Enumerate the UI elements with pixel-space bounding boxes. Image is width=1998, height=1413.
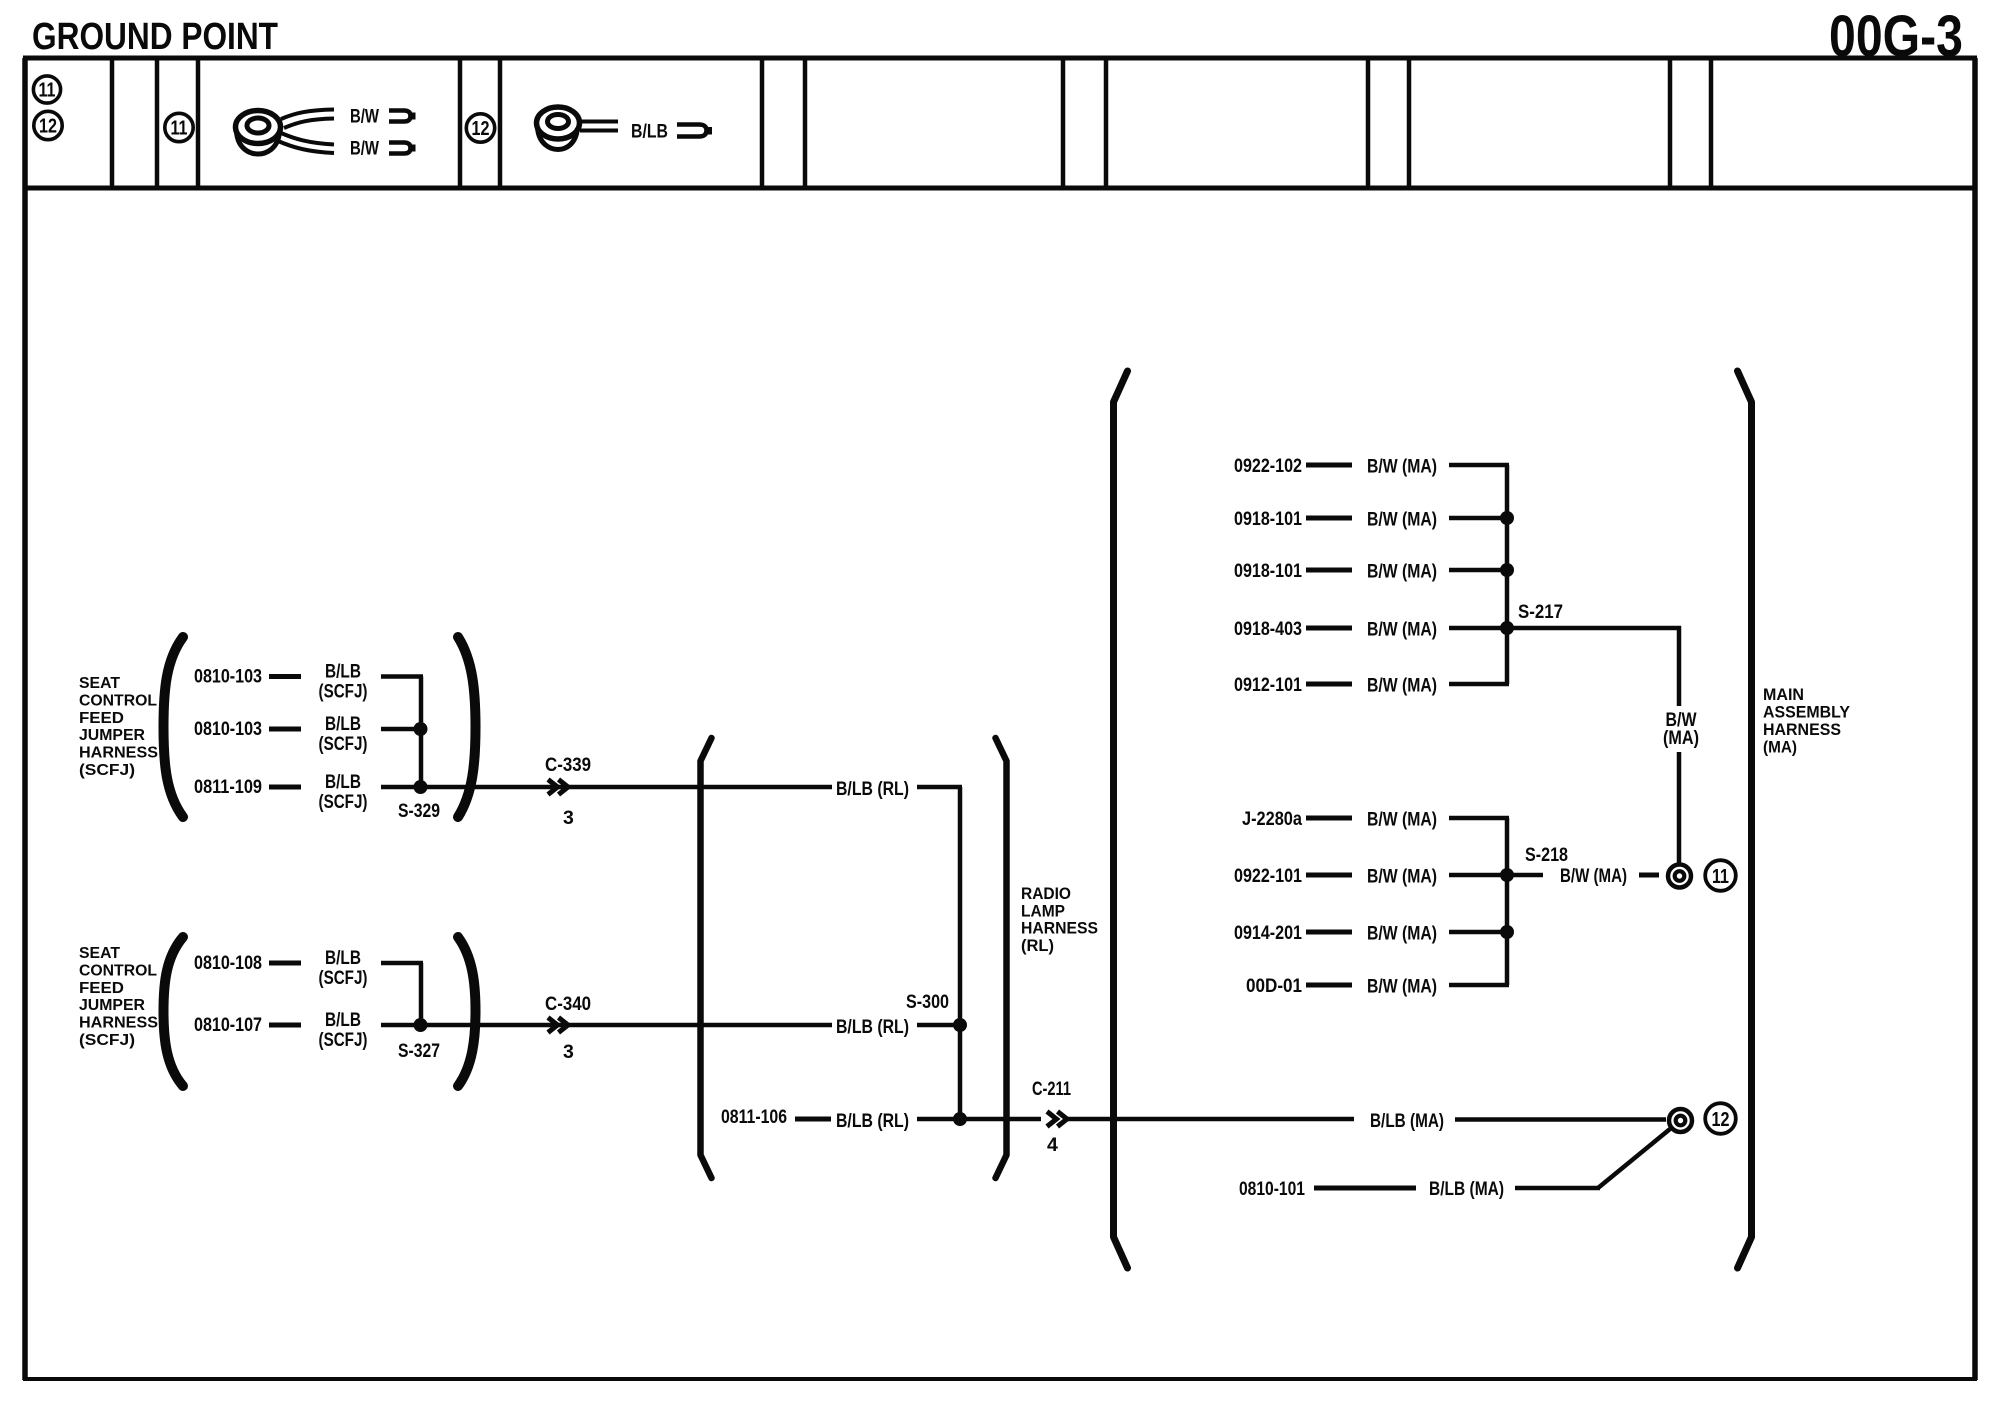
- wire B/LB (MA) from C-211 to ground 12: [1067, 1110, 1666, 1132]
- svg-text:0810-103: 0810-103: [194, 718, 262, 740]
- svg-text:B/W (MA): B/W (MA): [1367, 619, 1437, 641]
- wire 0918-101 B/W (MA) (b): [1234, 560, 1509, 583]
- svg-text:(SCFJ): (SCFJ): [79, 762, 135, 779]
- svg-text:CONTROL: CONTROL: [79, 692, 157, 709]
- svg-text:B/LB (RL): B/LB (RL): [836, 1110, 909, 1132]
- svg-text:(MA): (MA): [1663, 727, 1699, 749]
- svg-text:0811-106: 0811-106: [721, 1106, 787, 1128]
- connector C-211: [1032, 1078, 1071, 1156]
- svg-text:12: 12: [39, 116, 57, 138]
- svg-text:JUMPER: JUMPER: [79, 997, 145, 1014]
- svg-text:12: 12: [472, 118, 490, 140]
- bracket ) of MAIN ASSEMBLY HARNESS group: [1738, 371, 1752, 1268]
- svg-text:0918-403: 0918-403: [1234, 618, 1302, 640]
- svg-text:(SCFJ): (SCFJ): [319, 681, 368, 703]
- svg-text:HARNESS: HARNESS: [79, 1015, 158, 1032]
- svg-text:(RL): (RL): [1021, 936, 1054, 955]
- svg-text:B/W: B/W: [350, 106, 379, 128]
- connector C-340: [545, 993, 591, 1063]
- svg-text:FEED: FEED: [79, 980, 124, 997]
- svg-text:B/W (MA): B/W (MA): [1367, 509, 1437, 531]
- svg-text:HARNESS: HARNESS: [1763, 720, 1841, 739]
- svg-text:C-340: C-340: [545, 993, 591, 1015]
- wire 0810-103 B/LB (SCFJ) row 2: [194, 713, 420, 755]
- svg-text:B/W (MA): B/W (MA): [1367, 456, 1437, 478]
- svg-text:B/LB: B/LB: [325, 947, 361, 969]
- svg-text:S-218: S-218: [1525, 844, 1568, 866]
- splice S-329: [398, 677, 440, 823]
- wire 00D-01 B/W (MA): [1246, 975, 1509, 998]
- harness label SEAT CONTROL FEED JUMPER HARNESS (SCFJ) lower: [79, 945, 158, 1049]
- connector terminal symbol (top): [389, 111, 416, 122]
- wire 0810-107 B/LB (SCFJ) row 2: [194, 1009, 832, 1051]
- svg-text:B/LB (MA): B/LB (MA): [1429, 1178, 1504, 1200]
- ground point symbol 12: [1669, 1109, 1692, 1132]
- bracket ) of upper SCFJ group: [458, 637, 476, 817]
- svg-text:B/W (MA): B/W (MA): [1560, 865, 1627, 887]
- bracket ) of lower SCFJ group: [458, 937, 476, 1086]
- svg-text:ASSEMBLY: ASSEMBLY: [1763, 703, 1851, 722]
- wire 0918-101 B/W (MA) (a): [1234, 508, 1509, 531]
- harness label MAIN ASSEMBLY HARNESS (MA): [1763, 685, 1851, 757]
- splice S-218: [1500, 818, 1568, 985]
- ground id circled 12: [1705, 1103, 1736, 1134]
- wire 0922-102 B/W (MA): [1234, 455, 1509, 478]
- svg-text:12: 12: [1712, 1109, 1730, 1131]
- svg-text:S-327: S-327: [398, 1040, 440, 1062]
- svg-text:0810-107: 0810-107: [194, 1014, 262, 1036]
- ring terminal icon for ground 11: [236, 111, 281, 155]
- svg-text:S-300: S-300: [906, 991, 949, 1013]
- legend key circled 12: [466, 114, 494, 142]
- svg-text:FEED: FEED: [79, 710, 124, 727]
- svg-text:GROUND POINT: GROUND POINT: [32, 16, 278, 58]
- svg-text:B/W (MA): B/W (MA): [1367, 923, 1437, 945]
- svg-text:(MA): (MA): [1763, 738, 1797, 757]
- svg-text:(SCFJ): (SCFJ): [319, 733, 368, 755]
- svg-text:00D-01: 00D-01: [1246, 975, 1302, 997]
- svg-text:HARNESS: HARNESS: [1021, 919, 1098, 938]
- svg-text:(SCFJ): (SCFJ): [79, 1032, 135, 1049]
- wire B/LB (RL) from C-339 (row 1): [836, 778, 962, 800]
- wire 0811-106 B/LB (RL) (row 3): [721, 1106, 1041, 1132]
- svg-text:0914-201: 0914-201: [1234, 922, 1302, 944]
- splice S-300: [906, 787, 967, 1126]
- svg-text:SEAT: SEAT: [79, 945, 121, 962]
- svg-text:0918-101: 0918-101: [1234, 508, 1302, 530]
- svg-text:B/W (MA): B/W (MA): [1367, 976, 1437, 998]
- svg-text:S-217: S-217: [1518, 601, 1563, 623]
- svg-text:B/LB: B/LB: [325, 713, 361, 735]
- svg-text:B/LB: B/LB: [325, 1009, 361, 1031]
- svg-text:0810-108: 0810-108: [194, 952, 262, 974]
- wire B/W (bottom) of ground 11 icon: [278, 133, 334, 153]
- svg-text:B/LB: B/LB: [325, 771, 361, 793]
- svg-text:CONTROL: CONTROL: [79, 962, 157, 979]
- splice S-327: [398, 963, 440, 1062]
- svg-text:B/W: B/W: [350, 138, 379, 160]
- bracket ( of lower SCFJ group: [164, 937, 184, 1086]
- svg-text:LAMP: LAMP: [1021, 901, 1065, 920]
- wire B/W (MA) from S-217 to ground 11: [1507, 626, 1699, 864]
- legend key circled 11: [165, 113, 193, 141]
- legend ground id 12 (header cell): [34, 111, 62, 139]
- wire 0912-101 B/W (MA): [1234, 674, 1509, 697]
- connector terminal symbol (B/LB): [677, 125, 712, 137]
- svg-text:3: 3: [563, 1041, 574, 1063]
- svg-text:B/W (MA): B/W (MA): [1367, 675, 1437, 697]
- svg-text:4: 4: [1047, 1134, 1058, 1156]
- svg-text:0918-101: 0918-101: [1234, 560, 1302, 582]
- wire 0810-108 B/LB (SCFJ) row 1: [194, 947, 423, 989]
- svg-text:0810-101: 0810-101: [1239, 1178, 1305, 1200]
- svg-text:11: 11: [171, 118, 188, 140]
- svg-text:C-211: C-211: [1032, 1078, 1071, 1100]
- svg-text:MAIN: MAIN: [1763, 685, 1804, 704]
- svg-text:(SCFJ): (SCFJ): [319, 967, 368, 989]
- svg-text:RADIO: RADIO: [1021, 884, 1071, 903]
- ground point symbol 11: [1668, 865, 1691, 888]
- svg-text:B/LB: B/LB: [631, 121, 668, 143]
- svg-text:0922-101: 0922-101: [1234, 865, 1302, 887]
- harness label RADIO LAMP HARNESS (RL): [1021, 884, 1098, 955]
- svg-text:11: 11: [1712, 866, 1729, 888]
- bracket ( of upper SCFJ group: [164, 637, 184, 817]
- wire 0918-403 B/W (MA): [1234, 618, 1509, 641]
- svg-text:C-339: C-339: [545, 754, 591, 776]
- svg-text:0922-102: 0922-102: [1234, 455, 1302, 477]
- connector terminal symbol (bottom): [389, 143, 416, 154]
- svg-text:JUMPER: JUMPER: [79, 727, 145, 744]
- ground id circled 11: [1705, 860, 1736, 891]
- svg-text:B/W (MA): B/W (MA): [1367, 561, 1437, 583]
- wire 0811-109 B/LB (SCFJ) row 3: [194, 771, 832, 813]
- wire B/LB (RL) from C-340 (row 2): [836, 1016, 958, 1038]
- header table grid: [112, 58, 1711, 188]
- svg-text:0810-103: 0810-103: [194, 666, 262, 688]
- legend ground id 11 (header cell): [33, 76, 60, 103]
- svg-text:B/LB (RL): B/LB (RL): [836, 1016, 909, 1038]
- svg-text:B/W (MA): B/W (MA): [1367, 866, 1437, 888]
- wire 0810-101 B/LB (MA): [1239, 1129, 1670, 1200]
- svg-text:B/LB (MA): B/LB (MA): [1370, 1110, 1444, 1132]
- svg-text:11: 11: [39, 80, 56, 102]
- svg-text:3: 3: [563, 807, 574, 829]
- svg-text:HARNESS: HARNESS: [79, 745, 158, 762]
- svg-text:B/LB: B/LB: [325, 661, 361, 683]
- wire B/LB of ground 12 icon: [580, 122, 618, 131]
- svg-text:J-2280a: J-2280a: [1242, 808, 1302, 830]
- bracket ) of RADIO LAMP HARNESS group: [996, 738, 1007, 1178]
- wire 0914-201 B/W (MA): [1234, 922, 1509, 945]
- svg-text:0811-109: 0811-109: [194, 776, 262, 798]
- harness label SEAT CONTROL FEED JUMPER HARNESS (SCFJ) upper: [79, 675, 158, 779]
- ring terminal icon for ground 12: [537, 107, 580, 150]
- wire J-2280a B/W (MA): [1242, 808, 1509, 831]
- bracket ( of RADIO LAMP HARNESS group: [701, 738, 712, 1178]
- svg-text:B/LB (RL): B/LB (RL): [836, 778, 909, 800]
- svg-text:SEAT: SEAT: [79, 675, 121, 692]
- connector C-339: [545, 754, 591, 829]
- wire 0922-101 B/W (MA): [1234, 865, 1509, 888]
- svg-text:S-329: S-329: [398, 800, 440, 822]
- svg-text:B/W (MA): B/W (MA): [1367, 809, 1437, 831]
- splice S-217: [1500, 465, 1563, 684]
- bracket ( of MAIN ASSEMBLY HARNESS group: [1114, 371, 1128, 1268]
- wire 0810-103 B/LB (SCFJ) row 1: [194, 661, 423, 703]
- svg-text:0912-101: 0912-101: [1234, 674, 1302, 696]
- svg-text:(SCFJ): (SCFJ): [319, 1029, 368, 1051]
- wire B/W (MA) from S-218 to ground 11: [1509, 865, 1659, 887]
- wire B/W (top) of ground 11 icon: [281, 110, 334, 129]
- svg-text:(SCFJ): (SCFJ): [319, 791, 368, 813]
